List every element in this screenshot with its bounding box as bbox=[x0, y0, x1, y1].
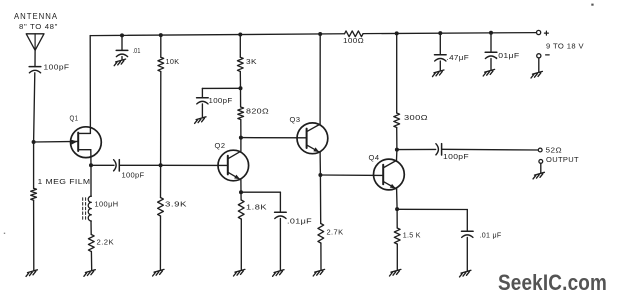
Q2 emitter bbox=[228, 172, 241, 180]
svg-text:8" TO 48": 8" TO 48" bbox=[19, 22, 58, 31]
svg-text:9 TO 18 V: 9 TO 18 V bbox=[546, 42, 584, 51]
transistor Q2 bbox=[218, 150, 249, 181]
wire rail left bbox=[90, 34, 344, 36]
svg-text:.01μF: .01μF bbox=[287, 217, 312, 226]
svg-text:10K: 10K bbox=[166, 57, 180, 66]
wire C9 to ground bbox=[439, 61, 441, 71]
wire node C to C4 bbox=[202, 87, 240, 89]
ground under 1 MEG bbox=[26, 270, 37, 277]
wire C4 to ground bbox=[201, 104, 203, 118]
wire gate bbox=[34, 140, 78, 143]
capacitor .01uF Q4 bbox=[462, 231, 474, 237]
label Q3 bbox=[290, 115, 301, 124]
wire rail to C2 bbox=[121, 35, 123, 50]
gate arrow Q1 bbox=[71, 140, 77, 145]
label 820ohm bbox=[246, 107, 269, 116]
node H junction bbox=[395, 148, 399, 152]
label OUTPUT bbox=[546, 155, 579, 164]
capacitor 100pF bypass bbox=[197, 98, 209, 104]
node rail-C01 bbox=[489, 31, 493, 35]
label 100pF bypass bbox=[209, 96, 233, 105]
wire node D to Q3 base bbox=[241, 137, 307, 139]
wire node S to C3 bbox=[91, 164, 114, 166]
Q4 emitter arrow bbox=[390, 184, 396, 189]
wire 820 to node D bbox=[240, 120, 242, 138]
resistor 1 MEG bbox=[31, 188, 37, 200]
label ANTENNA bbox=[14, 12, 58, 21]
wire node J to C8 bbox=[397, 208, 467, 210]
label 10K bbox=[166, 57, 180, 66]
transistor Q4 bbox=[374, 159, 405, 190]
node B junction bbox=[159, 163, 163, 167]
svg-text:SeekIC.com: SeekIC.com bbox=[498, 270, 607, 295]
resistor 3.9K bbox=[158, 198, 164, 217]
Q1 drain stub bbox=[78, 132, 90, 134]
wire node B to Q2 base bbox=[161, 164, 228, 166]
wire node H to C7 bbox=[397, 148, 436, 150]
label 2.2K bbox=[97, 238, 115, 247]
svg-text:100pF: 100pF bbox=[44, 63, 70, 72]
label .01 bbox=[133, 48, 141, 55]
wire C5 drop bbox=[279, 192, 281, 212]
wire 2.2K to ground bbox=[90, 252, 92, 271]
terminal + supply bbox=[537, 30, 541, 34]
wire Q1 drain to rail bbox=[89, 36, 91, 134]
Q4 emitter bbox=[383, 181, 396, 189]
wire 2.7K to ground bbox=[320, 243, 322, 270]
wire 300 to node H bbox=[396, 128, 398, 150]
capacitor .47uF bbox=[435, 55, 447, 61]
wire C2 to ground bbox=[121, 57, 123, 60]
svg-text:1.8K: 1.8K bbox=[246, 203, 267, 212]
wire antenna to C1 bbox=[34, 50, 36, 66]
label .01uF Q2 bbox=[287, 217, 312, 226]
ground under 1.5K bbox=[390, 269, 401, 276]
node C junction bbox=[239, 86, 243, 90]
wire rail to 300 bbox=[396, 33, 398, 113]
node rail-Q3 bbox=[318, 32, 322, 36]
wire 1.5K to ground bbox=[396, 244, 398, 270]
Q3 emitter bbox=[307, 145, 321, 153]
svg-text:.01μF: .01μF bbox=[496, 51, 520, 60]
svg-text:100pF: 100pF bbox=[443, 152, 469, 161]
ground under C10 bbox=[483, 69, 494, 76]
Q4 base bar bbox=[382, 165, 384, 184]
svg-text:Q4: Q4 bbox=[369, 153, 380, 162]
wire node B to 3.9K bbox=[160, 165, 162, 197]
label Q4 bbox=[369, 153, 380, 162]
label 100pF coupling bbox=[122, 171, 145, 180]
label 1 MEG FILM bbox=[38, 177, 91, 186]
label 52ohm bbox=[546, 146, 563, 155]
node F junction bbox=[318, 173, 322, 177]
capacitor 100pF antenna bbox=[29, 67, 41, 73]
watermark SeekIC.com bbox=[498, 270, 607, 295]
svg-text:.01 μF: .01 μF bbox=[480, 231, 502, 240]
wire rail right bbox=[363, 33, 536, 34]
label 300ohm bbox=[404, 113, 428, 122]
Q3 emitter arrow bbox=[313, 147, 319, 152]
scan speck left bbox=[4, 233, 5, 234]
wire 1 MEG to ground bbox=[33, 200, 35, 271]
capacitor 100pF output bbox=[436, 144, 442, 155]
label Q2 bbox=[215, 141, 226, 150]
wire Q4 emitter to node J bbox=[396, 189, 399, 209]
wire 3K to node C bbox=[239, 72, 241, 89]
wire C8 to ground bbox=[466, 237, 468, 271]
plus sign bbox=[544, 31, 548, 35]
node G junction bbox=[32, 140, 36, 144]
Q1 source stub bbox=[78, 149, 91, 151]
wire node J to 1.5K bbox=[396, 209, 398, 228]
node D junction bbox=[239, 136, 243, 140]
resistor 1.5K bbox=[394, 228, 400, 244]
label 9 TO 18V bbox=[546, 42, 584, 51]
wire node F to 2.7K bbox=[319, 175, 321, 224]
resistor 820 bbox=[238, 107, 244, 120]
capacitor 100pF coupling bbox=[114, 160, 120, 171]
capacitor .01uF supply bbox=[485, 52, 497, 58]
node rail-C47 bbox=[438, 31, 442, 35]
ground under C2 bbox=[114, 59, 125, 66]
svg-text:.47μF: .47μF bbox=[447, 53, 470, 62]
label 100pF antenna bbox=[44, 63, 70, 72]
wire node G to 1 MEG bbox=[33, 142, 35, 188]
antenna symbol bbox=[26, 34, 44, 51]
wire C8 drop bbox=[466, 210, 468, 232]
wire C10 to ground bbox=[490, 59, 492, 71]
node rail-10K bbox=[159, 33, 163, 37]
resistor 2.7K bbox=[318, 224, 324, 244]
wire node F to Q4 base bbox=[320, 174, 383, 176]
svg-text:300Ω: 300Ω bbox=[404, 113, 428, 122]
label 3K bbox=[246, 57, 257, 66]
resistor 1.8K bbox=[238, 200, 244, 219]
ground under 2.7K bbox=[313, 269, 324, 276]
wire node D to Q2 collector bbox=[228, 138, 241, 159]
ground under output bbox=[533, 172, 544, 179]
wire rail to C10 bbox=[490, 33, 492, 53]
ground under C4 bbox=[195, 117, 206, 124]
Q2 base bar bbox=[227, 156, 229, 175]
label 100ohm bbox=[343, 36, 364, 45]
wire - to ground bbox=[538, 58, 540, 72]
wire C5 to ground bbox=[279, 219, 281, 271]
ground under C9 bbox=[433, 70, 444, 77]
resistor 300ohm bbox=[394, 113, 400, 128]
Q2 emitter arrow bbox=[234, 175, 240, 180]
label 2.7K bbox=[327, 228, 344, 237]
wire C7 to output bbox=[442, 148, 538, 151]
inductor core dashes bbox=[83, 198, 86, 220]
svg-text:100pF: 100pF bbox=[122, 171, 145, 180]
ground under 1.8K bbox=[234, 269, 245, 276]
svg-text:OUTPUT: OUTPUT bbox=[546, 155, 579, 164]
resistor 100ohm bbox=[345, 31, 364, 37]
ground under - terminal bbox=[531, 71, 542, 78]
svg-text:3.9K: 3.9K bbox=[165, 200, 187, 209]
wire Q1 source to node S bbox=[90, 150, 92, 166]
svg-text:2.7K: 2.7K bbox=[327, 228, 344, 237]
wire Q3 collector bbox=[307, 34, 321, 132]
transistor Q3 bbox=[297, 123, 328, 154]
node E junction bbox=[239, 190, 243, 194]
wire rail to 10K bbox=[160, 35, 162, 57]
ground under 2.2K bbox=[84, 270, 95, 277]
Q1 channel bar bbox=[77, 133, 79, 151]
wire C4 drop bbox=[201, 88, 203, 97]
svg-text:100μH: 100μH bbox=[95, 200, 119, 209]
ground under 3.9K bbox=[153, 269, 164, 276]
terminal output ground bbox=[539, 160, 543, 164]
wire Q3 emitter to node F bbox=[319, 153, 321, 175]
label .47uF bbox=[447, 53, 470, 62]
resistor 10K bbox=[158, 57, 164, 71]
scan speck top right bbox=[591, 4, 593, 6]
label 8" TO 48" bbox=[19, 22, 58, 31]
wire rail to 3K bbox=[239, 35, 241, 58]
capacitor .01 bypass bbox=[116, 50, 128, 56]
svg-text:100pF: 100pF bbox=[209, 96, 233, 105]
label Q1 bbox=[70, 113, 79, 122]
resistor 2.2K bbox=[88, 235, 94, 252]
wire C3 to node B bbox=[120, 164, 161, 166]
Q3 base bar bbox=[306, 129, 308, 148]
node rail-300 bbox=[395, 31, 399, 35]
resistor 3K bbox=[237, 57, 243, 71]
ground under C5 bbox=[273, 270, 284, 277]
svg-text:52Ω: 52Ω bbox=[546, 146, 563, 155]
wire node S to L1 bbox=[90, 165, 92, 196]
terminal - supply bbox=[537, 54, 541, 58]
wire Q4 collector bbox=[383, 150, 397, 168]
wire node C to 820 bbox=[240, 88, 242, 107]
label .01uF supply bbox=[496, 51, 520, 60]
svg-text:Q3: Q3 bbox=[290, 115, 301, 124]
svg-text:Q1: Q1 bbox=[70, 113, 79, 122]
svg-text:ANTENNA: ANTENNA bbox=[14, 12, 58, 21]
svg-text:Q2: Q2 bbox=[215, 141, 226, 150]
node S junction bbox=[89, 163, 93, 167]
transistor Q1 bbox=[71, 127, 102, 158]
label 100pF output bbox=[443, 152, 469, 161]
svg-text:.01: .01 bbox=[133, 48, 141, 55]
wire C1 to node G bbox=[34, 73, 35, 142]
wire L1 to 2.2K bbox=[90, 221, 92, 235]
svg-text:820Ω: 820Ω bbox=[246, 107, 269, 116]
wire output terminal to ground bbox=[540, 163, 542, 173]
wire node E to 1.8K bbox=[240, 192, 242, 200]
svg-text:3K: 3K bbox=[246, 57, 257, 66]
terminal 52ohm output bbox=[538, 148, 542, 152]
svg-text:1 MEG FILM: 1 MEG FILM bbox=[38, 177, 91, 186]
node J junction bbox=[395, 207, 399, 211]
node rail-C2 bbox=[120, 33, 124, 37]
label .01uF Q4 bbox=[480, 231, 502, 240]
wire node E to C5 bbox=[241, 191, 280, 193]
minus sign bbox=[546, 54, 550, 56]
inductor 100uH bbox=[88, 196, 91, 221]
svg-text:100Ω: 100Ω bbox=[343, 36, 364, 45]
wire 1.8K to ground bbox=[240, 219, 242, 270]
wire 3.9K to ground bbox=[159, 216, 161, 270]
label 100uH bbox=[95, 200, 119, 209]
svg-text:1.5 K: 1.5 K bbox=[403, 231, 421, 240]
node rail-3K bbox=[238, 33, 242, 37]
wire rail to C9 bbox=[439, 33, 441, 55]
label 1.8K bbox=[246, 203, 267, 212]
capacitor .01uF Q2 bbox=[275, 212, 287, 218]
wire Q2 emitter to node E bbox=[240, 180, 242, 192]
label 3.9K bbox=[165, 200, 187, 209]
svg-text:2.2K: 2.2K bbox=[97, 238, 115, 247]
wire 10K to node B bbox=[160, 72, 162, 166]
label 1.5K bbox=[403, 231, 421, 240]
ground under C8 bbox=[460, 270, 471, 277]
